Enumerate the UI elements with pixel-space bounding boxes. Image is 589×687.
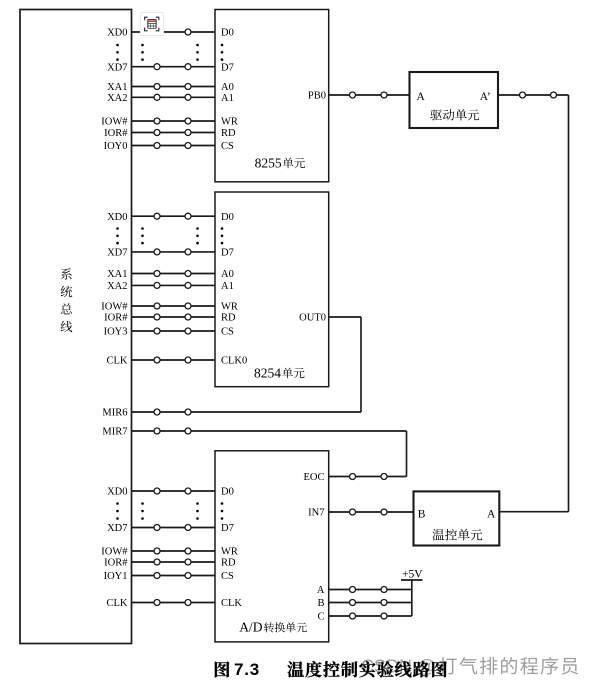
wire IOR# to 8255 RD bbox=[104, 128, 236, 139]
wire CLK to 8254 CLK0 bbox=[107, 356, 248, 367]
system bus box 系统总线 bbox=[20, 10, 132, 644]
svg-text:A: A bbox=[417, 91, 426, 103]
svg-text:A’: A’ bbox=[480, 91, 491, 103]
svg-text:XD0: XD0 bbox=[107, 28, 127, 39]
svg-text:A/D: A/D bbox=[239, 620, 263, 635]
ellipsis dots XD0..XD7 (8255 group) bbox=[116, 44, 223, 61]
wire IN7 to thermo unit B bbox=[329, 509, 414, 515]
wire MIR7 from bus to EOC corner bbox=[102, 427, 406, 438]
bus name label 系统总线 (vertical) bbox=[61, 268, 73, 332]
svg-text:8254: 8254 bbox=[254, 365, 281, 380]
svg-text:CLK0: CLK0 bbox=[221, 356, 247, 367]
wire XD7 to 8255 D7 bbox=[107, 62, 234, 73]
wire XD0 to A/D D0 bbox=[107, 487, 234, 498]
8254 unit value label 8254单元 bbox=[254, 365, 305, 380]
driver unit label 驱动单元 bbox=[430, 109, 479, 120]
svg-text:OUT0: OUT0 bbox=[299, 313, 326, 324]
svg-text:IOY3: IOY3 bbox=[104, 327, 128, 338]
svg-text:D0: D0 bbox=[221, 487, 234, 498]
8255 unit value label 8255单元 bbox=[255, 155, 305, 170]
svg-text:EOC: EOC bbox=[304, 472, 325, 483]
wire XD0 to 8254 D0 bbox=[107, 212, 234, 223]
svg-text:WR: WR bbox=[221, 302, 238, 313]
svg-text:B: B bbox=[418, 508, 426, 520]
wire XA2 to 8254 A1 bbox=[107, 281, 234, 292]
wire MIR6 from bus to OUT0 corner bbox=[102, 408, 361, 419]
svg-text:CS: CS bbox=[221, 327, 234, 338]
8255 unit box bbox=[215, 10, 329, 182]
wire IOW# to 8254 WR bbox=[101, 302, 238, 313]
wire CLK to A/D CLK bbox=[107, 598, 243, 609]
svg-text:A0: A0 bbox=[221, 82, 234, 93]
ellipsis dots XD0..XD7 (8254 group) bbox=[116, 227, 223, 244]
wire XA2 to 8255 A1 bbox=[107, 93, 234, 104]
svg-text:IOR#: IOR# bbox=[104, 128, 128, 139]
A/D converter unit box bbox=[215, 451, 329, 642]
svg-text:IOR#: IOR# bbox=[104, 313, 128, 324]
svg-text:XD7: XD7 bbox=[107, 523, 127, 534]
wire C to +5V rail bbox=[329, 613, 412, 619]
svg-text:RD: RD bbox=[221, 558, 236, 569]
svg-text:7.3: 7.3 bbox=[234, 660, 260, 679]
caption 图 7.3 温度控制实验线路图 bbox=[215, 660, 447, 679]
wire IOR# to 8254 RD bbox=[104, 313, 236, 324]
wire XA1 to 8255 A0 bbox=[107, 82, 234, 93]
svg-text:A1: A1 bbox=[221, 281, 234, 292]
wire IOY3 to 8254 CS bbox=[104, 327, 234, 338]
svg-text:IOW#: IOW# bbox=[101, 302, 128, 313]
svg-text:A: A bbox=[487, 508, 496, 520]
svg-text:IOW#: IOW# bbox=[101, 117, 128, 128]
svg-text:+5V: +5V bbox=[402, 568, 423, 580]
thermo unit label 温控单元 bbox=[432, 529, 482, 541]
svg-text:RD: RD bbox=[221, 313, 236, 324]
wire IOY0 to 8255 CS bbox=[104, 141, 234, 152]
wire B to +5V rail bbox=[329, 600, 412, 606]
svg-text:IN7: IN7 bbox=[308, 508, 324, 519]
wire EOC up to MIR7 bbox=[329, 431, 407, 480]
svg-text:XD7: XD7 bbox=[107, 62, 127, 73]
wire IOY1 to A/D CS bbox=[104, 571, 234, 582]
svg-text:WR: WR bbox=[221, 117, 238, 128]
wire IOR# to A/D RD bbox=[104, 558, 236, 569]
svg-text:D0: D0 bbox=[221, 212, 234, 223]
svg-text:D7: D7 bbox=[221, 248, 234, 259]
svg-text:B: B bbox=[317, 598, 324, 609]
svg-text:CS: CS bbox=[221, 141, 234, 152]
svg-text:PB0: PB0 bbox=[308, 91, 326, 102]
svg-text:XD0: XD0 bbox=[107, 487, 127, 498]
svg-text:D7: D7 bbox=[221, 62, 234, 73]
driver unit box 驱动单元 bbox=[410, 72, 499, 128]
svg-text:XA2: XA2 bbox=[107, 281, 127, 292]
ellipsis dots XD0..XD7 (A/D group) bbox=[116, 502, 223, 520]
svg-text:CLK: CLK bbox=[221, 598, 242, 609]
svg-text:CS: CS bbox=[221, 571, 234, 582]
svg-text:RD: RD bbox=[221, 128, 236, 139]
wire XD7 to A/D D7 bbox=[107, 523, 234, 534]
A/D unit value label A/D转换单元 bbox=[239, 620, 307, 635]
screenshot capture icon overlay bbox=[140, 12, 163, 35]
wire driver unit A' to right vertical bbox=[498, 92, 569, 98]
wire XA1 to 8254 A0 bbox=[107, 269, 234, 280]
svg-text:CLK: CLK bbox=[107, 356, 128, 367]
svg-text:MIR7: MIR7 bbox=[102, 427, 127, 438]
svg-text:WR: WR bbox=[221, 547, 238, 558]
svg-text:XA1: XA1 bbox=[107, 82, 127, 93]
svg-text:D7: D7 bbox=[221, 523, 234, 534]
svg-text:XA1: XA1 bbox=[107, 269, 127, 280]
wire PB0 to driver unit A bbox=[329, 92, 410, 98]
svg-text:D0: D0 bbox=[221, 28, 234, 39]
svg-text:XD0: XD0 bbox=[107, 212, 127, 223]
wire IOW# to 8255 WR bbox=[101, 117, 238, 128]
svg-text:IOW#: IOW# bbox=[101, 547, 128, 558]
wire IOW# to A/D WR bbox=[101, 547, 238, 558]
svg-text:MIR6: MIR6 bbox=[102, 408, 127, 419]
wire A to +5V rail bbox=[329, 587, 412, 593]
wire XD7 to 8254 D7 bbox=[107, 248, 234, 259]
wire OUT0 to MIR6 bbox=[329, 317, 361, 412]
thermo control unit box 温控单元 bbox=[414, 491, 500, 545]
svg-text:CLK: CLK bbox=[107, 598, 128, 609]
svg-text:IOR#: IOR# bbox=[104, 558, 128, 569]
wire right vertical A' down to thermo unit A bbox=[499, 95, 568, 512]
wire XD0 to 8255 D0 bbox=[107, 28, 234, 39]
svg-text:C: C bbox=[317, 612, 324, 623]
svg-text:A1: A1 bbox=[221, 93, 234, 104]
svg-text:XA2: XA2 bbox=[107, 93, 127, 104]
svg-text:IOY1: IOY1 bbox=[104, 571, 128, 582]
svg-text:A: A bbox=[317, 585, 325, 596]
8254 unit box bbox=[215, 192, 329, 387]
svg-text:XD7: XD7 bbox=[107, 248, 127, 259]
+5V power rail bbox=[401, 568, 423, 616]
svg-text:A0: A0 bbox=[221, 269, 234, 280]
svg-text:8255: 8255 bbox=[255, 155, 282, 170]
svg-text:IOY0: IOY0 bbox=[104, 141, 128, 152]
